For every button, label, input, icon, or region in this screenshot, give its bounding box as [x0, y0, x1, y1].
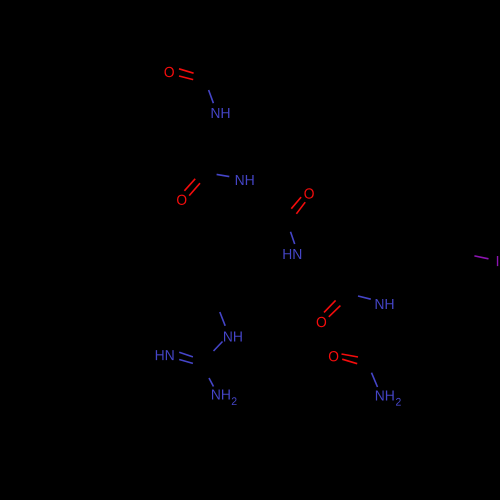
atom N5 label NH2 (terminal amide nitrogen)	[376, 391, 394, 401]
bond C1=O1 double bond (acetyl carbonyl, O half, upper line)	[179, 69, 194, 73]
bond Cg-N8 (guanidine to NH2, blue half)	[209, 378, 214, 387]
bond N2-C2 (amide N half, blue)	[217, 174, 230, 176]
subscript 2 of N8 label	[232, 397, 237, 405]
bond C2=O2 double bond (O half, lower line)	[189, 183, 200, 195]
atom N1 label NH (acetylated amide nitrogen)	[212, 108, 230, 118]
bond C3-N3 (amide HN half, blue)	[291, 232, 295, 244]
bond C1=O1 double bond (acetyl carbonyl, O half, lower line)	[179, 76, 193, 80]
atom N4 label NH (amide nitrogen)	[376, 299, 394, 309]
bond C3=O3 double bond (O half, upper line)	[291, 197, 301, 209]
subscript 2 of N5 label	[396, 398, 401, 406]
bond C5=O5 double bond (O half, lower line)	[342, 359, 357, 364]
atom O5 (terminal amide oxygen)	[329, 351, 338, 361]
bond C4=O4 double bond (O half, upper line)	[324, 300, 336, 312]
atom O3 (amide carbonyl oxygen)	[304, 188, 313, 198]
atom N3 label HN (amide nitrogen)	[283, 249, 301, 259]
bond C1-N1 (amide N-H half, blue)	[209, 90, 214, 103]
atom O1 (acetyl carbonyl oxygen)	[165, 67, 174, 77]
bond HN7=Cg double bond (N half, lower line)	[179, 360, 193, 364]
bond C5=O5 double bond (O half, upper line)	[342, 354, 359, 357]
bond CH2-N6 (arginine side chain to guanidine NH, blue half)	[220, 312, 225, 326]
atom N2 label NH (amide nitrogen)	[236, 175, 254, 185]
atom O2 (amide carbonyl oxygen)	[177, 195, 186, 205]
atom N8 label NH2 (guanidine amine)	[212, 390, 230, 400]
atom N6 label NH (guanidine)	[224, 332, 242, 342]
bond C5-N5 (terminal amide NH2 half, blue)	[372, 373, 378, 387]
bond C4=O4 double bond (O half, lower line)	[329, 306, 341, 317]
bond Caryl-I (iodine half, purple)	[474, 256, 488, 259]
atom N7 label HN (guanidine imine)	[156, 350, 174, 360]
bond N4-C4 (amide NH half, blue)	[358, 296, 371, 299]
atom O4 (amide carbonyl oxygen)	[317, 317, 326, 327]
atom I (aryl iodide, glyph drawn as bar)	[497, 256, 499, 266]
bond N6-Cg (guanidine NH to C, blue half)	[214, 342, 223, 352]
bond C2=O2 double bond (O half, upper line)	[184, 179, 195, 191]
bond C3=O3 double bond (O half, lower line)	[296, 202, 305, 214]
bond HN7=Cg double bond (N half, upper line)	[179, 352, 193, 357]
